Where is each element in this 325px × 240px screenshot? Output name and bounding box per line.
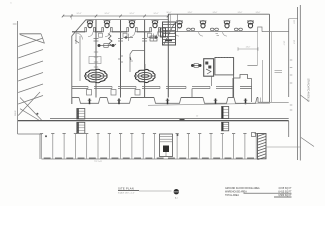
svg-text:A-1: A-1 xyxy=(175,196,178,199)
svg-text:110.00': 110.00' xyxy=(15,110,17,116)
svg-text:24'-0": 24'-0" xyxy=(188,12,193,14)
svg-text:SITE PLAN: SITE PLAN xyxy=(118,186,134,190)
svg-text:GROUND FLOOR OFFICE AREA: GROUND FLOOR OFFICE AREA xyxy=(225,187,260,190)
svg-text:SCALE: 1/16" = 1'-0": SCALE: 1/16" = 1'-0" xyxy=(118,192,135,195)
svg-text:24'-0": 24'-0" xyxy=(256,12,261,14)
svg-text:STANDARD AVENUE: STANDARD AVENUE xyxy=(307,78,310,102)
svg-text:24'-0": 24'-0" xyxy=(104,13,109,15)
svg-text:TYP 9'x19': TYP 9'x19' xyxy=(94,161,103,163)
svg-text:24'-6": 24'-6" xyxy=(76,13,81,15)
svg-text:24'-0": 24'-0" xyxy=(238,12,243,14)
svg-text:TOTAL AREA: TOTAL AREA xyxy=(225,194,239,197)
svg-text:24'-0": 24'-0" xyxy=(283,41,285,46)
svg-text:24'-0": 24'-0" xyxy=(293,40,295,45)
svg-text:3,155 SQ FT: 3,155 SQ FT xyxy=(278,188,292,190)
svg-text:24'-0": 24'-0" xyxy=(129,13,134,15)
svg-text:24'-0": 24'-0" xyxy=(213,12,218,14)
svg-text:9,580 SQ FT: 9,580 SQ FT xyxy=(278,195,292,197)
svg-text:24'-0": 24'-0" xyxy=(153,13,158,15)
svg-text:24'-0": 24'-0" xyxy=(246,47,251,49)
